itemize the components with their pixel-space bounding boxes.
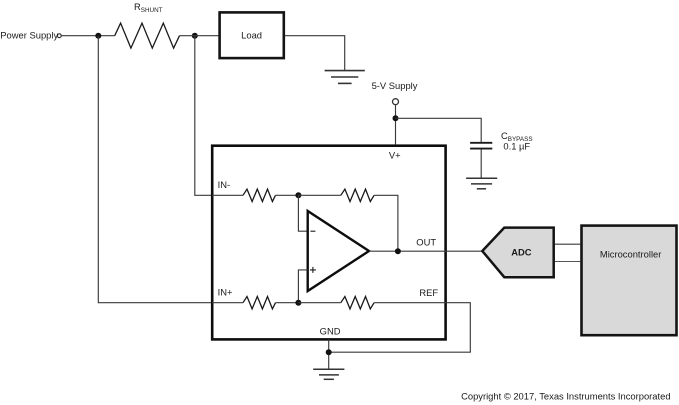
svg-text:REF: REF (419, 287, 438, 298)
node A inverting input (295, 192, 301, 198)
svg-text:0.1 µF: 0.1 µF (503, 141, 530, 152)
wire power supply to R_SHUNT (61, 35, 114, 37)
wire to bypass capacitor (396, 118, 482, 142)
ground symbol at Load (325, 71, 365, 84)
node junction IN- tap (192, 33, 198, 39)
wire ADC to microcontroller upper (555, 243, 580, 245)
wire R_SHUNT to Load (180, 35, 219, 37)
wire op-amp output to OUT pin (369, 250, 482, 252)
amplifier IC box U1 (212, 146, 445, 340)
wire IN+ tap vertical (98, 36, 212, 303)
wire node B to non-inverting input (298, 270, 307, 303)
node GND junction (326, 349, 332, 355)
svg-text:Power Supply: Power Supply (0, 30, 58, 41)
resistor RSHUNT (115, 23, 180, 48)
resistor R4 reference (341, 297, 374, 309)
wire feedback to OUT node (374, 195, 398, 251)
ground symbol at GND pin (313, 369, 344, 379)
svg-text:V+: V+ (389, 150, 401, 161)
wire node A to feedback resistor (298, 194, 340, 196)
wire node B to R4 (298, 302, 340, 304)
wire 5-V supply to V+ pin (395, 105, 397, 145)
svg-text:OUT: OUT (416, 237, 436, 248)
node OUT junction (395, 248, 401, 254)
capacitor CBYPASS (470, 143, 492, 149)
wire IN+ pin to R3 (212, 302, 243, 304)
svg-text:5-V Supply: 5-V Supply (372, 80, 418, 91)
wire R1 to node A (276, 194, 299, 196)
svg-text:Load: Load (241, 30, 262, 41)
op-amp minus sign (310, 230, 315, 232)
power supply terminal (57, 34, 61, 38)
resistor R2 feedback (341, 189, 374, 201)
svg-text:RSHUNT: RSHUNT (134, 1, 163, 14)
op-amp plus sign (310, 267, 316, 273)
resistor R1 input (243, 189, 276, 201)
svg-text:IN-: IN- (218, 179, 231, 190)
wire IN- tap vertical (195, 36, 212, 196)
node junction IN+ tap (95, 33, 101, 39)
wire IN- pin to R1 (212, 194, 243, 196)
svg-text:IN+: IN+ (218, 287, 233, 298)
svg-text:ADC: ADC (511, 246, 532, 257)
microcontroller block (582, 226, 677, 336)
op-amp U1 triangle (308, 211, 369, 291)
wire GND pin to ground (328, 339, 330, 369)
svg-text:Microcontroller: Microcontroller (600, 248, 661, 259)
Load box (220, 12, 284, 58)
wire REF pin out of box (329, 303, 471, 353)
svg-text:GND: GND (320, 326, 341, 337)
wire Load to ground (285, 36, 345, 71)
wire capacitor to ground (480, 150, 482, 179)
wire R3 to node B (276, 302, 299, 304)
node junction bypass tap (393, 115, 399, 121)
ADC block (482, 228, 553, 278)
wire ADC to microcontroller lower (555, 261, 580, 263)
svg-text:Copyright © 2017, Texas Instru: Copyright © 2017, Texas Instruments Inco… (461, 391, 670, 402)
resistor R3 input (243, 297, 276, 309)
node B non-inverting input (295, 300, 301, 306)
5-V supply terminal (393, 99, 399, 105)
wire node A to inverting input (298, 195, 307, 231)
ground symbol at bypass capacitor (466, 178, 497, 189)
